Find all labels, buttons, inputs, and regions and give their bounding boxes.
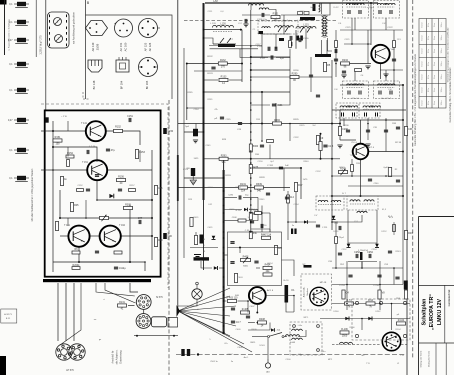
osc dashed can <box>258 21 298 34</box>
resistor R162 <box>55 222 58 231</box>
junction bus C <box>250 177 252 179</box>
trimmer cap sym <box>194 255 201 257</box>
junction bus B <box>223 205 225 207</box>
svg-text:C 291: C 291 <box>322 227 328 229</box>
resistor R106 <box>340 328 349 338</box>
capacitor C409 <box>231 321 242 324</box>
lamp terminal <box>196 282 199 285</box>
svg-text:C111: C111 <box>208 11 214 13</box>
svg-text:R340: R340 <box>304 161 310 163</box>
svg-text:R45: R45 <box>74 204 79 207</box>
junction bus C <box>250 102 252 104</box>
svg-text:R402: R402 <box>243 255 249 258</box>
resistor R458 <box>255 212 262 215</box>
wire h120r <box>340 119 403 121</box>
r290 wire <box>251 76 290 78</box>
svg-text:R281: R281 <box>208 99 214 101</box>
speaker connect wire2 <box>105 283 136 303</box>
IF transformer Fi3 <box>343 81 369 99</box>
junction <box>402 119 404 121</box>
resistor R243 <box>404 231 413 240</box>
junction amp1 <box>85 217 87 219</box>
junction bus C <box>250 45 252 47</box>
resistor R250 <box>335 237 338 244</box>
automatic dashed box <box>301 274 332 310</box>
rail y124 <box>178 123 340 125</box>
package outline TO-72 <box>139 58 158 77</box>
junction amp2 <box>96 199 98 201</box>
svg-text:87m: 87m <box>428 88 430 92</box>
capacitor C126 <box>285 197 289 199</box>
speaker wire 1 <box>57 283 59 341</box>
junction mix4 <box>335 63 337 65</box>
svg-text:D262: D262 <box>376 311 382 313</box>
capacitor C159 electrolytic <box>163 128 174 134</box>
amplifier box bottom thick bar <box>43 279 151 282</box>
svg-text:S 501: S 501 <box>259 345 265 347</box>
svg-text:nur Ausführung mit gedrucktem: nur Ausführung mit gedrucktem <box>73 12 76 44</box>
svg-text:C254: C254 <box>372 249 378 251</box>
resistor R164 <box>154 186 163 195</box>
amp wire t1 row <box>48 130 86 132</box>
svg-text:Fi 12: Fi 12 <box>334 7 340 9</box>
cable fan wire 8 <box>178 311 252 352</box>
tone wire a <box>228 247 282 249</box>
svg-text:D251: D251 <box>334 231 340 233</box>
amp wire final out <box>121 235 152 237</box>
tone wire b <box>239 248 241 254</box>
amp wire out bus <box>79 247 130 262</box>
capacitor C457 <box>261 224 263 228</box>
svg-text:St 576: St 576 <box>156 296 163 299</box>
ground below C140 <box>193 140 198 143</box>
svg-text:SW: SW <box>186 168 189 170</box>
svg-text:C141: C141 <box>206 145 212 147</box>
ground hatched <box>190 180 197 185</box>
vert 360 <box>360 120 362 144</box>
conn box terminals <box>355 301 358 304</box>
junction <box>223 190 225 192</box>
amp wire final row <box>60 235 68 237</box>
f v270t <box>269 213 271 232</box>
w y220 <box>224 220 238 222</box>
svg-text:R341: R341 <box>260 199 266 201</box>
junction bus C <box>250 167 252 169</box>
junction fan2 <box>222 332 224 334</box>
coil ratio b <box>364 200 374 202</box>
svg-text:C4 7: C4 7 <box>236 321 242 324</box>
svg-text:R409: R409 <box>252 329 258 331</box>
f box wires <box>282 260 295 276</box>
capacitor C158 <box>114 267 126 270</box>
svg-text:L4a C1 b2: L4a C1 b2 <box>381 98 392 100</box>
potentiometer R159 <box>100 215 109 221</box>
frequency table <box>419 19 446 109</box>
lr wire f <box>332 344 380 346</box>
d v386b <box>385 118 387 152</box>
connector plug lower <box>136 314 151 329</box>
capacitor C251 <box>338 253 342 255</box>
junction bus C <box>250 76 252 78</box>
svg-text:105m: 105m <box>441 48 443 53</box>
capacitor C246 <box>339 226 341 230</box>
ratio wire r <box>376 210 378 244</box>
bus C <box>250 10 252 232</box>
svg-text:M: M <box>203 239 205 241</box>
svg-text:C403: C403 <box>238 277 244 279</box>
svg-text:0hm: 0hm <box>434 101 436 105</box>
resistor R447b <box>287 195 295 203</box>
title block divider <box>419 284 454 286</box>
svg-text:Kanal: Kanal <box>422 100 424 105</box>
fm input resistors <box>298 12 303 15</box>
svg-text:25/26: 25/26 <box>96 43 100 50</box>
diode D253 <box>332 216 336 220</box>
svg-text:C 191: C 191 <box>267 165 274 167</box>
coil conn2 <box>292 338 303 340</box>
capacitor C157 <box>138 217 143 224</box>
ant wire <box>267 355 269 360</box>
svg-text:7 064: 7 064 <box>389 49 395 51</box>
resistor R244 <box>393 225 396 232</box>
capacitor C114b <box>275 47 277 51</box>
tube MP pins <box>324 298 326 300</box>
w v258 <box>246 198 258 221</box>
speaker right <box>69 344 85 360</box>
svg-text:D252: D252 <box>382 231 388 233</box>
lr rail 318 <box>320 318 410 320</box>
svg-text:941: 941 <box>222 161 227 164</box>
svg-text:1k75: 1k75 <box>303 179 309 181</box>
junction g2 <box>361 267 363 269</box>
vert 242 <box>241 30 243 82</box>
junction bus C <box>250 204 252 206</box>
bottom dashed chassis rail <box>176 354 406 356</box>
w y209 <box>224 209 242 211</box>
ground mixer a <box>341 75 346 78</box>
capacitor C118 <box>290 36 292 40</box>
bus thick B <box>223 170 225 333</box>
wire h64 right <box>340 63 371 65</box>
resistor R165 <box>154 238 163 247</box>
svg-text:105m: 105m <box>441 61 443 66</box>
resistor R232 <box>393 41 396 48</box>
coil ratio c <box>357 211 367 213</box>
speaker wire 3 <box>73 283 75 341</box>
junction bus B <box>223 247 225 249</box>
svg-text:R335: R335 <box>300 125 306 127</box>
fm divider dash <box>184 20 338 22</box>
junction <box>331 158 333 160</box>
black bar fm1 <box>300 17 315 20</box>
amp w1 <box>67 121 69 131</box>
capacitor C124 <box>316 95 320 97</box>
junction if3 <box>351 175 353 177</box>
svg-text:Schaltplan: Schaltplan <box>422 299 428 326</box>
pinout panel corner <box>83 92 90 99</box>
svg-text:C150: C150 <box>167 130 173 133</box>
svg-text:C5 L0: C5 L0 <box>351 142 358 144</box>
svg-text:105m: 105m <box>441 22 443 27</box>
svg-text:R133: R133 <box>207 73 213 75</box>
w v296b <box>295 192 297 222</box>
svg-text:C132: C132 <box>294 137 300 139</box>
junction a1 <box>186 107 188 109</box>
capacitor C501 <box>187 349 190 356</box>
resistor R406 <box>263 273 272 276</box>
svg-text:R132: R132 <box>220 59 226 62</box>
junction <box>320 158 322 160</box>
resistor R132 <box>218 59 227 69</box>
capacitor C237 <box>396 180 400 182</box>
package outline flat1 <box>88 60 102 72</box>
capacitor C447 <box>230 242 234 244</box>
junction f1 <box>261 212 263 214</box>
svg-text:C115 0,5µ: C115 0,5µ <box>257 19 268 21</box>
svg-text:R242: R242 <box>339 167 345 169</box>
svg-text:R285: R285 <box>188 92 194 94</box>
h h330 <box>248 329 270 331</box>
junction <box>261 91 263 93</box>
left code box <box>1 309 17 323</box>
lr vert 380 <box>379 261 381 310</box>
resistor R156 <box>117 176 126 186</box>
osc v306 <box>305 29 307 49</box>
connector wire down <box>143 309 145 313</box>
capacitor C119 <box>290 42 292 46</box>
svg-text:0hm: 0hm <box>434 88 436 92</box>
antenna feed wire <box>267 338 269 355</box>
svg-text:1nF: 1nF <box>285 165 289 167</box>
resistor R234 <box>341 59 350 69</box>
resistor R152 <box>114 129 123 132</box>
switch S1 <box>268 336 270 338</box>
svg-text:R2 38: R2 38 <box>395 142 402 144</box>
amp vertical r <box>151 150 153 260</box>
left panel divider <box>35 0 37 57</box>
pinout panel border <box>86 15 173 99</box>
lr wire e <box>391 304 393 331</box>
svg-text:C192: C192 <box>316 171 322 173</box>
w y222b <box>288 221 316 223</box>
capacitor C141 <box>211 67 215 69</box>
capacitor C175 electrolytic <box>191 168 195 176</box>
if wire 3 <box>354 70 356 81</box>
svg-text:R243: R243 <box>396 251 402 253</box>
junction bus C <box>250 69 252 71</box>
svg-text:R408: R408 <box>259 318 265 321</box>
junction <box>402 195 404 197</box>
resistor R405 <box>234 274 237 283</box>
junction bus C <box>250 212 252 214</box>
svg-text:C431: C431 <box>208 227 214 229</box>
e v284b <box>283 168 285 191</box>
rail y159 <box>204 158 341 160</box>
sw wire2 <box>284 336 287 338</box>
left panel border <box>45 0 47 110</box>
resistor R431 <box>190 218 193 227</box>
c117 loop <box>240 49 268 58</box>
svg-text:R290: R290 <box>293 70 299 72</box>
capacitor C151 <box>127 115 133 122</box>
ground if b <box>365 144 370 147</box>
c h44 <box>344 43 371 45</box>
suppression capacitor C34 <box>9 88 29 94</box>
cable fan wire 4 <box>178 311 230 316</box>
capacitor C149 input <box>45 117 48 122</box>
svg-text:„EUROPA TR“: „EUROPA TR“ <box>429 294 435 330</box>
amplifier bold box <box>45 110 161 276</box>
resistor R405b <box>241 308 250 314</box>
ant coil wire2 <box>269 10 276 16</box>
svg-text:105m: 105m <box>441 100 443 105</box>
junction if4 <box>385 175 387 177</box>
resistor R296 <box>267 140 274 143</box>
svg-text:C284: C284 <box>194 109 200 111</box>
r290 wire2 <box>299 76 332 78</box>
d v368b <box>367 118 369 140</box>
svg-text:C500: C500 <box>286 359 292 361</box>
junction bus C <box>250 190 252 192</box>
svg-text:B-C0: B-C0 <box>284 280 290 282</box>
svg-text:Kanal: Kanal <box>422 87 424 92</box>
junction e1 <box>261 140 263 142</box>
svg-text:C119: C119 <box>300 11 306 13</box>
resistor R339 <box>255 183 264 193</box>
junction <box>250 123 252 125</box>
junction bus C <box>250 158 252 160</box>
svg-text:R151: R151 <box>55 136 61 139</box>
trimmer box pin <box>49 20 51 23</box>
resistor R133 <box>219 76 228 86</box>
junction if5 <box>331 175 333 177</box>
w v288 <box>287 191 289 240</box>
resistor R151 <box>53 136 62 146</box>
svg-text:C1b L4: C1b L4 <box>351 98 359 100</box>
svg-text:1 7504 54: 1 7504 54 <box>358 250 369 252</box>
vert 360b <box>360 159 362 196</box>
svg-text:R-403 110: R-403 110 <box>227 297 239 300</box>
g v336c <box>335 222 337 268</box>
svg-text:Kanal: Kanal <box>422 35 424 40</box>
junction mix3 <box>393 69 395 71</box>
capacitor C233 <box>396 127 400 129</box>
svg-text:AC1 6: AC1 6 <box>267 289 274 292</box>
junction g4 <box>346 284 348 286</box>
svg-text:AD 149: AD 149 <box>91 42 95 51</box>
junction bus B <box>223 325 225 327</box>
junction <box>331 123 333 125</box>
ratio core <box>350 203 375 205</box>
svg-text:Stecker: Stecker <box>306 288 309 296</box>
capacitor C254 <box>367 251 373 258</box>
resistor R239 <box>351 165 354 172</box>
resistor R125 <box>323 63 330 72</box>
h v270b <box>269 323 271 331</box>
junction g7 <box>379 303 381 305</box>
ratio wire l <box>347 210 349 244</box>
lr vert 347 <box>346 261 348 310</box>
svg-text:AF 126: AF 126 <box>148 42 152 51</box>
capacitor C430 <box>200 235 204 244</box>
capacitor C116 black <box>279 38 284 41</box>
capacitor C258 <box>377 275 381 277</box>
resistor R94 <box>366 299 375 309</box>
suppression capacitor C30 <box>9 2 29 8</box>
lr wire d <box>361 319 363 331</box>
r244 wire <box>393 222 395 235</box>
svg-text:0hm: 0hm <box>434 49 436 53</box>
w y209b <box>249 209 258 211</box>
wire h70 <box>251 69 290 71</box>
resistor R153 <box>135 150 145 159</box>
black bar fm2 <box>315 54 331 57</box>
transistor T3 AD149 <box>68 226 89 247</box>
coil L260 <box>339 342 352 344</box>
svg-text:+ 2 W: + 2 W <box>61 116 67 118</box>
junction fan <box>197 353 199 355</box>
svg-text:C.250: C.250 <box>373 285 380 287</box>
svg-text:Kanal: Kanal <box>422 74 424 79</box>
vert 301 <box>300 168 302 199</box>
svg-text:Düring bis Gerät: Düring bis Gerät <box>428 351 431 367</box>
speaker connect wire <box>96 283 135 296</box>
svg-text:R152: R152 <box>115 126 121 129</box>
junction cb2 <box>173 335 175 337</box>
fm trafo leads <box>321 40 323 54</box>
junction bus C <box>250 162 252 164</box>
d v344 <box>343 118 345 126</box>
junction bus C <box>250 150 252 152</box>
svg-text:N 261: N 261 <box>236 210 242 212</box>
drv wire c <box>256 304 258 313</box>
w y229 <box>251 228 270 230</box>
resistor R154 <box>66 152 74 158</box>
amp wire mid <box>53 147 97 160</box>
ground mixer c <box>365 66 370 69</box>
suppression capacitor C31 <box>9 20 29 26</box>
svg-text:87m: 87m <box>428 75 430 79</box>
svg-text:C143: C143 <box>208 187 214 189</box>
junction <box>261 123 263 125</box>
diode D431 <box>214 266 218 270</box>
trimmer T1 <box>54 18 62 26</box>
agc wire2 <box>195 232 197 235</box>
svg-text:87m: 87m <box>428 23 430 27</box>
drv wire d <box>266 295 294 297</box>
junction <box>129 261 131 263</box>
resistor R404 <box>274 246 282 255</box>
g v394c <box>393 268 395 285</box>
resistor R432 <box>249 165 259 174</box>
ratio out wire <box>348 261 377 263</box>
IF transformer Fi2 <box>374 1 400 19</box>
svg-text:T 162: T 162 <box>119 225 126 227</box>
trimmer box pin <box>49 32 51 35</box>
fan hub <box>177 305 181 317</box>
osc h34 <box>262 33 290 35</box>
svg-text:C122: C122 <box>387 27 393 29</box>
svg-text:0hm: 0hm <box>434 75 436 79</box>
capacitor C122 <box>335 42 337 46</box>
junction bus B <box>223 267 225 269</box>
suppression capacitor C36 <box>9 148 29 154</box>
cable fan wire 3 <box>178 306 236 311</box>
tuning slug black bar <box>218 44 235 47</box>
svg-text:Kanal: Kanal <box>422 61 424 66</box>
svg-text:C252: C252 <box>342 249 348 251</box>
resistor R403 <box>227 297 239 303</box>
